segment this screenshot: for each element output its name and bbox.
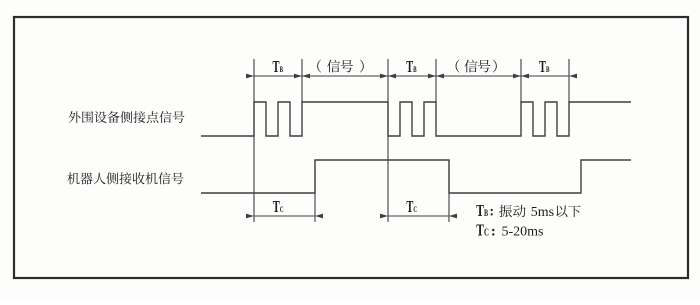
svg-text:5ms: 5ms bbox=[531, 205, 554, 220]
svg-text:5-20ms: 5-20ms bbox=[502, 225, 544, 240]
